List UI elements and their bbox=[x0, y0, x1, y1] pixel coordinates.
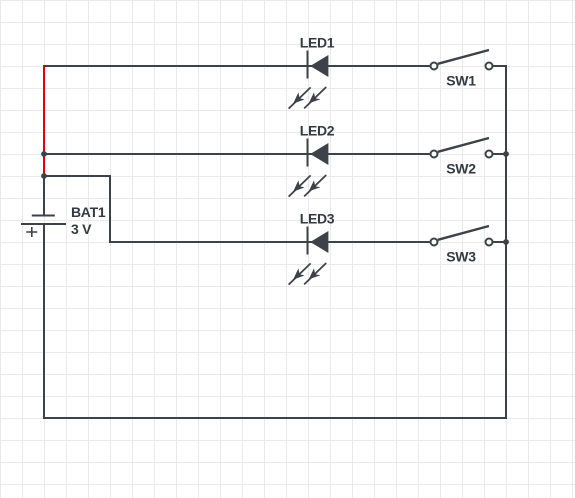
svg-text:SW1: SW1 bbox=[446, 73, 476, 89]
label LED1 bbox=[300, 35, 335, 51]
LED D3 symbol bbox=[289, 227, 329, 285]
svg-text:3 V: 3 V bbox=[71, 221, 92, 237]
label SW3 bbox=[446, 249, 476, 265]
node A junction dot left rail LED2 branch bbox=[41, 151, 47, 157]
node B junction dot left rail LED3 branch bbox=[41, 173, 47, 179]
svg-text:LED3: LED3 bbox=[300, 211, 335, 227]
switch SW2 bbox=[431, 138, 493, 158]
wire battery bottom lead bbox=[43, 224, 45, 418]
label SW2 bbox=[446, 161, 476, 177]
LED D1 symbol bbox=[289, 51, 329, 109]
wire SW2 right terminal to right rail bbox=[493, 153, 506, 155]
svg-text:SW2: SW2 bbox=[446, 161, 476, 177]
node C junction dot right rail SW2 bbox=[503, 151, 509, 157]
value 3 V bbox=[71, 221, 92, 237]
switch SW3 bbox=[431, 226, 493, 246]
wire SW3 right terminal to right rail bbox=[493, 241, 506, 243]
wire LED2 row rail bbox=[44, 153, 430, 155]
wire LED3 branch from node B right then down bbox=[44, 176, 110, 242]
wire LED3 row rail bbox=[109, 241, 430, 243]
label LED2 bbox=[300, 123, 335, 139]
switch SW1 bbox=[431, 50, 493, 70]
svg-text:SW3: SW3 bbox=[446, 249, 476, 265]
wire bottom rail bbox=[43, 417, 507, 419]
wire red segment battery positive riser bbox=[43, 66, 45, 176]
battery BAT1 bbox=[21, 216, 66, 238]
svg-text:BAT1: BAT1 bbox=[71, 204, 106, 220]
svg-text:LED1: LED1 bbox=[300, 35, 335, 51]
node D junction dot right rail SW3 bbox=[503, 239, 509, 245]
wire top rail from battery top corner to SW1 bbox=[43, 65, 430, 67]
LED D2 symbol bbox=[289, 139, 329, 197]
label BAT1 bbox=[71, 204, 106, 220]
wire battery top lead bbox=[43, 176, 45, 215]
wire right rail down to bottom-right corner bbox=[505, 65, 507, 418]
svg-text:LED2: LED2 bbox=[300, 123, 335, 139]
label SW1 bbox=[446, 73, 476, 89]
label LED3 bbox=[300, 211, 335, 227]
wire SW1 right terminal to top-right corner bbox=[493, 65, 506, 67]
